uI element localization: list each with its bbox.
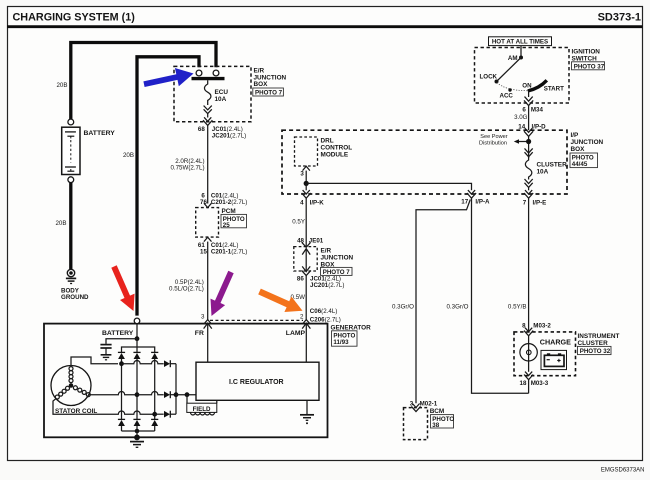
svg-text:0.5Y: 0.5Y (292, 219, 305, 226)
svg-text:ACC: ACC (500, 93, 514, 100)
trio diode D7 (164, 360, 176, 367)
label 2.0R/0.75W (170, 158, 204, 172)
node trio output (174, 392, 179, 397)
connector 4 I/P-K at box exit (300, 190, 324, 207)
svg-text:I/P: I/P (571, 132, 580, 139)
svg-text:FR: FR (195, 330, 204, 337)
label 20B (123, 152, 134, 159)
svg-text:I/P-K: I/P-K (310, 200, 325, 207)
wire trio bus to regulator (176, 394, 196, 396)
svg-text:EMGSD6373AN: EMGSD6373AN (601, 468, 645, 474)
capacitor (100, 345, 111, 355)
svg-text:See Power: See Power (480, 134, 507, 140)
svg-text:C201-1(2.7L): C201-1(2.7L) (211, 248, 247, 255)
wire 20B battery positive (thick) (71, 43, 216, 120)
svg-text:44/45: 44/45 (572, 161, 588, 168)
svg-text:GROUND: GROUND (61, 294, 89, 301)
svg-text:10A: 10A (537, 169, 549, 176)
wire node to I/P-A (306, 183, 471, 190)
svg-text:PHOTO 7: PHOTO 7 (255, 90, 283, 97)
annotation arrow (blue) (143, 68, 193, 87)
svg-text:BOX: BOX (571, 146, 586, 153)
wire I/P-K to JE01 (0.5Y) (292, 198, 306, 247)
annotation arrow (orange) (258, 289, 302, 312)
trio output bus (175, 364, 177, 415)
connector 3 (DRL output) (300, 166, 310, 177)
I/P junction box (282, 130, 604, 194)
node bottom rail center (135, 429, 140, 438)
wire DRL to node (305, 171, 307, 184)
svg-text:M03-2: M03-2 (533, 322, 551, 329)
svg-text:BOX: BOX (254, 81, 269, 88)
node phase 3 (152, 412, 157, 417)
node AM (508, 55, 523, 62)
node power distribution tap (526, 139, 531, 144)
connector 86 JC01/JC201 (297, 270, 344, 289)
terminal BATTERY (generator) (102, 318, 140, 337)
battery icon (charge symbol) (541, 350, 567, 369)
svg-text:0.3Gr/O: 0.3Gr/O (446, 304, 468, 311)
svg-text:JC201(2.7L): JC201(2.7L) (212, 133, 246, 140)
capacitor branch wire (106, 339, 137, 344)
field coil box (187, 400, 217, 415)
node ACC (500, 88, 514, 99)
svg-text:20B: 20B (123, 152, 134, 159)
trio diode D8 (164, 391, 176, 398)
wire fuse to box exit (207, 114, 209, 118)
svg-text:3: 3 (201, 314, 205, 321)
diode D4 (lower left) (118, 419, 125, 431)
svg-text:JE01: JE01 (309, 237, 324, 244)
diode D1 (upper left) (118, 352, 125, 419)
svg-text:DRL: DRL (321, 137, 334, 144)
detent arc LOCK-ACC-ON (497, 83, 528, 91)
svg-text:4: 4 (300, 200, 304, 207)
wire regulator to ground (306, 400, 308, 414)
wire I/P-D into cluster fuse (528, 136, 530, 158)
svg-text:INSTRUMENT: INSTRUMENT (578, 333, 620, 340)
connector chevrons above cluster fuse (525, 148, 533, 156)
svg-text:17: 17 (461, 198, 468, 205)
svg-text:JC201(2.7L): JC201(2.7L) (310, 282, 344, 289)
svg-text:C06(2.4L): C06(2.4L) (310, 308, 338, 315)
svg-text:SD373-1: SD373-1 (598, 12, 641, 24)
wire 20B generator feed (thick) (137, 57, 199, 316)
terminal FR connector 3 (195, 314, 212, 338)
wire stator phase 3 (hops) (53, 399, 155, 415)
svg-text:76: 76 (200, 199, 207, 206)
svg-text:I/P-E: I/P-E (533, 199, 547, 206)
fuse ECU 10A (204, 80, 228, 105)
svg-text:PHOTO 32: PHOTO 32 (580, 348, 611, 355)
label HOT AT ALL TIMES (489, 37, 552, 46)
svg-text:PCM: PCM (222, 208, 236, 215)
stator coil circle (51, 366, 97, 416)
svg-text:BATTERY: BATTERY (102, 330, 134, 337)
node LOCK (480, 74, 499, 84)
label 20B (55, 220, 66, 227)
terminal LAMP connector 2 (286, 314, 311, 338)
connector dashed line C06/C206 between FR and LAMP (210, 319, 303, 321)
svg-text:25: 25 (223, 222, 230, 229)
svg-text:MODULE: MODULE (321, 151, 349, 158)
connector 8 M03-2 (522, 322, 551, 335)
rectifier bottom rail (122, 430, 155, 432)
svg-text:0.75W(2.7L): 0.75W(2.7L) (170, 165, 204, 172)
wire through lower E/R box (302, 249, 310, 272)
svg-text:AM: AM (508, 55, 518, 62)
DRL control module box (295, 137, 353, 166)
diode D3 (upper right) (151, 352, 158, 419)
svg-text:LAMP: LAMP (286, 330, 306, 337)
ignition switch box (475, 48, 605, 104)
svg-text:10A: 10A (215, 96, 227, 103)
diode D2 (upper middle) (133, 352, 140, 419)
terminal circle (E/R box left) (196, 70, 202, 76)
svg-text:C206(2.7L): C206(2.7L) (310, 317, 341, 324)
svg-text:7: 7 (523, 199, 527, 206)
svg-text:6: 6 (522, 106, 526, 113)
annotation arrow (purple) (211, 271, 234, 316)
wire LAMP into regulator (305, 325, 307, 363)
wire M34 to I/P-D (3.0G) (514, 106, 529, 131)
svg-text:0.5L/O(2.7L): 0.5L/O(2.7L) (169, 286, 204, 293)
connector chevrons below fuse (204, 106, 212, 114)
svg-text:11/93: 11/93 (333, 339, 349, 346)
svg-text:M02-1: M02-1 (420, 400, 438, 407)
charge indicator lamp (520, 336, 571, 361)
svg-text:38: 38 (432, 422, 439, 429)
wire stator phase 2 (hops) (89, 392, 137, 395)
connector 6 C01 / 76 C201-2 into PCM (200, 192, 247, 207)
rectifier top rail (122, 339, 155, 353)
diode D5 (lower middle) (133, 419, 140, 431)
svg-text:C201-2(2.7L): C201-2(2.7L) (211, 199, 247, 206)
wire I/P-A down to M03-3 (0.3Gr/O) (446, 198, 528, 393)
node phase 1 (119, 361, 124, 366)
connector 6 M34 (522, 106, 543, 113)
title CHARGING SYSTEM (1) (13, 12, 136, 24)
bus bar in E/R box (192, 77, 225, 80)
trio diode D9 (164, 411, 176, 418)
svg-text:I.C REGULATOR: I.C REGULATOR (229, 379, 284, 386)
BCM box (404, 408, 455, 440)
switch arm AM-LOCK (497, 58, 522, 82)
wire JC01 to C01 (207, 125, 209, 203)
svg-text:0.5Y/B: 0.5Y/B (508, 304, 527, 311)
svg-text:3.0G: 3.0G (514, 114, 528, 121)
wire JC01 to LAMP (0.5W) (291, 276, 307, 320)
svg-text:BATTERY: BATTERY (84, 130, 116, 137)
svg-text:Distribution: Distribution (479, 140, 507, 146)
wire battery to body ground (thick) (69, 183, 72, 269)
svg-text:CLUSTER: CLUSTER (578, 340, 609, 347)
ground (regulator) (300, 415, 314, 425)
svg-text:CONTROL: CONTROL (321, 144, 353, 151)
node DRL junction (304, 181, 309, 186)
svg-text:20B: 20B (56, 82, 67, 89)
svg-text:I/P-A: I/P-A (475, 198, 490, 205)
svg-text:CHARGE: CHARGE (540, 338, 571, 347)
ground (generator case) (130, 435, 144, 448)
svg-text:15: 15 (200, 248, 207, 255)
svg-text:GENERATOR: GENERATOR (331, 324, 372, 331)
diode D6 (lower right) (151, 419, 158, 431)
E/R junction box (lower) (294, 247, 354, 276)
svg-text:M34: M34 (531, 106, 544, 113)
svg-text:IGNITION: IGNITION (572, 48, 601, 55)
wire phase 3 to trio diode (155, 413, 164, 415)
svg-text:FIELD: FIELD (193, 406, 211, 413)
svg-text:E/R: E/R (321, 247, 332, 254)
connector chevrons below cluster fuse (525, 179, 533, 190)
instrument cluster box (514, 332, 619, 376)
node phase 2 (135, 392, 140, 397)
svg-text:3: 3 (300, 170, 304, 177)
connector 3 M02-1 (410, 400, 438, 411)
svg-text:20B: 20B (55, 220, 66, 227)
wire I/P-A to BCM (0.3Gr/O) (392, 200, 470, 404)
fuse CLUSTER 10A (525, 157, 567, 180)
label 20B (56, 82, 67, 89)
connector 7 I/P-E at box exit (523, 190, 547, 206)
stator windings Y (55, 367, 90, 399)
wire phase 1 to trio diode (hops) (122, 361, 164, 364)
wire PCM to generator FR (207, 242, 209, 321)
wire hot feed to AM (520, 46, 522, 58)
wire ignition output (524, 91, 533, 106)
connector 14 I/P-D (518, 123, 546, 136)
svg-text:68: 68 (198, 126, 205, 133)
svg-text:2: 2 (300, 314, 304, 321)
switch blade ON-START (thick arc) (528, 80, 564, 92)
wire I/P-E to M03-2 (0.5Y/B) (508, 198, 529, 331)
svg-text:18: 18 (520, 380, 527, 387)
node field tap (185, 392, 190, 397)
see power distribution note (479, 134, 529, 147)
connector 18 M03-3 (520, 361, 549, 387)
svg-text:JUNCTION: JUNCTION (321, 254, 354, 261)
connector 68 JC01/JC201 at box exit (198, 117, 246, 139)
svg-text:START: START (544, 86, 564, 93)
svg-text:HOT AT ALL TIMES: HOT AT ALL TIMES (492, 39, 548, 46)
svg-text:M03-3: M03-3 (531, 380, 549, 387)
connector 17 I/P-A at box exit (461, 190, 490, 205)
svg-text:SWITCH: SWITCH (572, 55, 598, 62)
label 0.5P/0.5L/O (169, 279, 204, 293)
generator box (44, 324, 371, 438)
svg-text:LOCK: LOCK (480, 74, 498, 81)
svg-text:PHOTO 37: PHOTO 37 (574, 63, 605, 70)
wire FR into regulator (207, 325, 209, 363)
wire field tap down (186, 395, 188, 404)
terminal circle (E/R box right) (213, 70, 219, 76)
wire battery terminal to bridge (136, 324, 138, 339)
connector label C06/C206 (310, 308, 341, 324)
svg-text:CLUSTER: CLUSTER (537, 162, 568, 169)
svg-text:0.3Gr/O: 0.3Gr/O (392, 304, 414, 311)
battery (62, 119, 116, 183)
wire M03-3 down to join (528, 380, 530, 394)
IC regulator U1 (196, 362, 319, 400)
node battery/capacitor junction (135, 336, 140, 341)
connector 48 JE01 (297, 237, 324, 247)
PCM box (196, 208, 247, 238)
diagram code SD373-1 (598, 12, 641, 24)
annotation arrow (red) (111, 265, 134, 311)
wire stator phase 1 (71, 357, 118, 367)
footer code EMGSD6373AN (601, 468, 645, 474)
body ground G (61, 269, 89, 301)
wire phase 2 to trio diode (hop) (137, 392, 164, 395)
E/R junction box (top) (174, 66, 287, 121)
svg-text:JUNCTION: JUNCTION (571, 139, 604, 146)
svg-text:CHARGING SYSTEM (1): CHARGING SYSTEM (1) (13, 12, 136, 24)
node ON (522, 83, 532, 90)
wire node down to I/P-K (305, 183, 307, 190)
svg-text:86: 86 (297, 275, 304, 282)
ground (capacitor) (101, 355, 112, 360)
connector 61 C01 / 15 C201-1 out of PCM (198, 237, 247, 255)
